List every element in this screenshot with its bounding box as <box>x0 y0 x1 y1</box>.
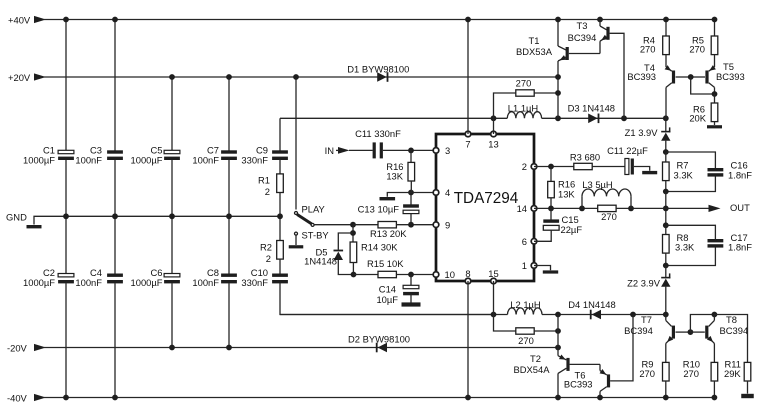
svg-text:13: 13 <box>488 139 498 150</box>
svg-text:C11 22µF: C11 22µF <box>607 145 648 156</box>
svg-text:T1: T1 <box>529 35 540 46</box>
svg-text:ST-BY: ST-BY <box>302 230 330 241</box>
svg-text:T7: T7 <box>641 314 652 325</box>
svg-text:3.3K: 3.3K <box>675 241 695 252</box>
svg-text:PLAY: PLAY <box>302 203 326 214</box>
svg-text:2: 2 <box>265 186 270 197</box>
svg-text:-20V: -20V <box>7 343 28 354</box>
svg-text:BDX53A: BDX53A <box>516 46 553 57</box>
svg-text:R15 10K: R15 10K <box>367 258 404 269</box>
svg-text:3: 3 <box>445 145 450 156</box>
svg-text:270: 270 <box>683 368 699 379</box>
svg-text:OUT: OUT <box>730 202 750 213</box>
svg-text:+40V: +40V <box>8 15 31 26</box>
svg-text:8: 8 <box>465 268 470 279</box>
svg-text:100nF: 100nF <box>192 277 219 288</box>
svg-text:D4 1N4148: D4 1N4148 <box>568 299 615 310</box>
svg-text:270: 270 <box>601 211 617 222</box>
svg-text:BC394: BC394 <box>624 325 653 336</box>
svg-text:D2 BYW98100: D2 BYW98100 <box>348 333 410 344</box>
svg-text:BC394: BC394 <box>720 325 749 336</box>
svg-text:1000µF: 1000µF <box>23 155 55 166</box>
svg-text:2: 2 <box>266 253 271 264</box>
svg-text:270: 270 <box>689 44 705 55</box>
svg-text:1.8nF: 1.8nF <box>728 241 752 252</box>
svg-text:TDA7294: TDA7294 <box>454 190 519 207</box>
svg-text:100nF: 100nF <box>75 155 102 166</box>
svg-text:T3: T3 <box>577 20 588 31</box>
svg-text:D3 1N4148: D3 1N4148 <box>568 102 615 113</box>
svg-text:L1 1µH: L1 1µH <box>508 102 538 113</box>
svg-text:270: 270 <box>640 44 656 55</box>
svg-text:BC393: BC393 <box>564 378 593 389</box>
svg-text:C13 10µF: C13 10µF <box>358 203 400 214</box>
svg-text:BC393: BC393 <box>716 71 745 82</box>
svg-text:BDX54A: BDX54A <box>514 364 551 375</box>
svg-text:R13 20K: R13 20K <box>370 228 407 239</box>
svg-text:7: 7 <box>465 139 470 150</box>
svg-text:2: 2 <box>522 161 527 172</box>
svg-text:6: 6 <box>522 236 527 247</box>
svg-text:4: 4 <box>445 187 450 198</box>
svg-text:L3 5µH: L3 5µH <box>582 179 612 190</box>
svg-text:GND: GND <box>6 211 27 222</box>
svg-text:R14 30K: R14 30K <box>361 242 398 253</box>
svg-text:1N4148: 1N4148 <box>304 255 337 266</box>
svg-text:100nF: 100nF <box>75 277 102 288</box>
svg-text:330nF: 330nF <box>241 277 268 288</box>
svg-text:1000µF: 1000µF <box>131 155 163 166</box>
svg-text:3.3K: 3.3K <box>674 169 694 180</box>
svg-text:D1 BYW98100: D1 BYW98100 <box>347 64 409 75</box>
svg-text:10: 10 <box>445 269 455 280</box>
svg-text:13K: 13K <box>386 170 403 181</box>
svg-text:-40V: -40V <box>7 393 28 404</box>
svg-text:1000µF: 1000µF <box>23 277 55 288</box>
svg-text:R1: R1 <box>258 174 270 185</box>
svg-text:Z2 3.9V: Z2 3.9V <box>627 277 661 288</box>
svg-text:9: 9 <box>445 219 450 230</box>
svg-text:Z1 3.9V: Z1 3.9V <box>625 127 659 138</box>
svg-text:22µF: 22µF <box>561 224 583 235</box>
svg-text:14: 14 <box>517 203 527 214</box>
svg-text:R2: R2 <box>260 241 272 252</box>
svg-text:L2 1µH: L2 1µH <box>510 299 540 310</box>
svg-text:270: 270 <box>639 368 655 379</box>
svg-text:1000µF: 1000µF <box>131 277 163 288</box>
svg-text:R3 680: R3 680 <box>570 151 600 162</box>
svg-text:+20V: +20V <box>8 72 31 83</box>
svg-text:15: 15 <box>488 268 498 279</box>
svg-text:C11 330nF: C11 330nF <box>355 128 401 139</box>
svg-text:BC393: BC393 <box>627 71 656 82</box>
svg-text:10µF: 10µF <box>376 294 398 305</box>
svg-text:330nF: 330nF <box>241 155 268 166</box>
svg-text:T2: T2 <box>530 353 541 364</box>
svg-text:1: 1 <box>522 260 527 271</box>
svg-text:IN: IN <box>325 145 334 156</box>
svg-text:29K: 29K <box>724 368 741 379</box>
svg-text:13K: 13K <box>558 189 575 200</box>
svg-text:1.8nF: 1.8nF <box>728 169 752 180</box>
svg-text:BC394: BC394 <box>568 32 597 43</box>
svg-text:20K: 20K <box>689 113 706 124</box>
svg-text:T8: T8 <box>726 314 737 325</box>
svg-text:270: 270 <box>518 335 534 346</box>
svg-text:270: 270 <box>516 78 532 89</box>
svg-text:100nF: 100nF <box>192 155 219 166</box>
